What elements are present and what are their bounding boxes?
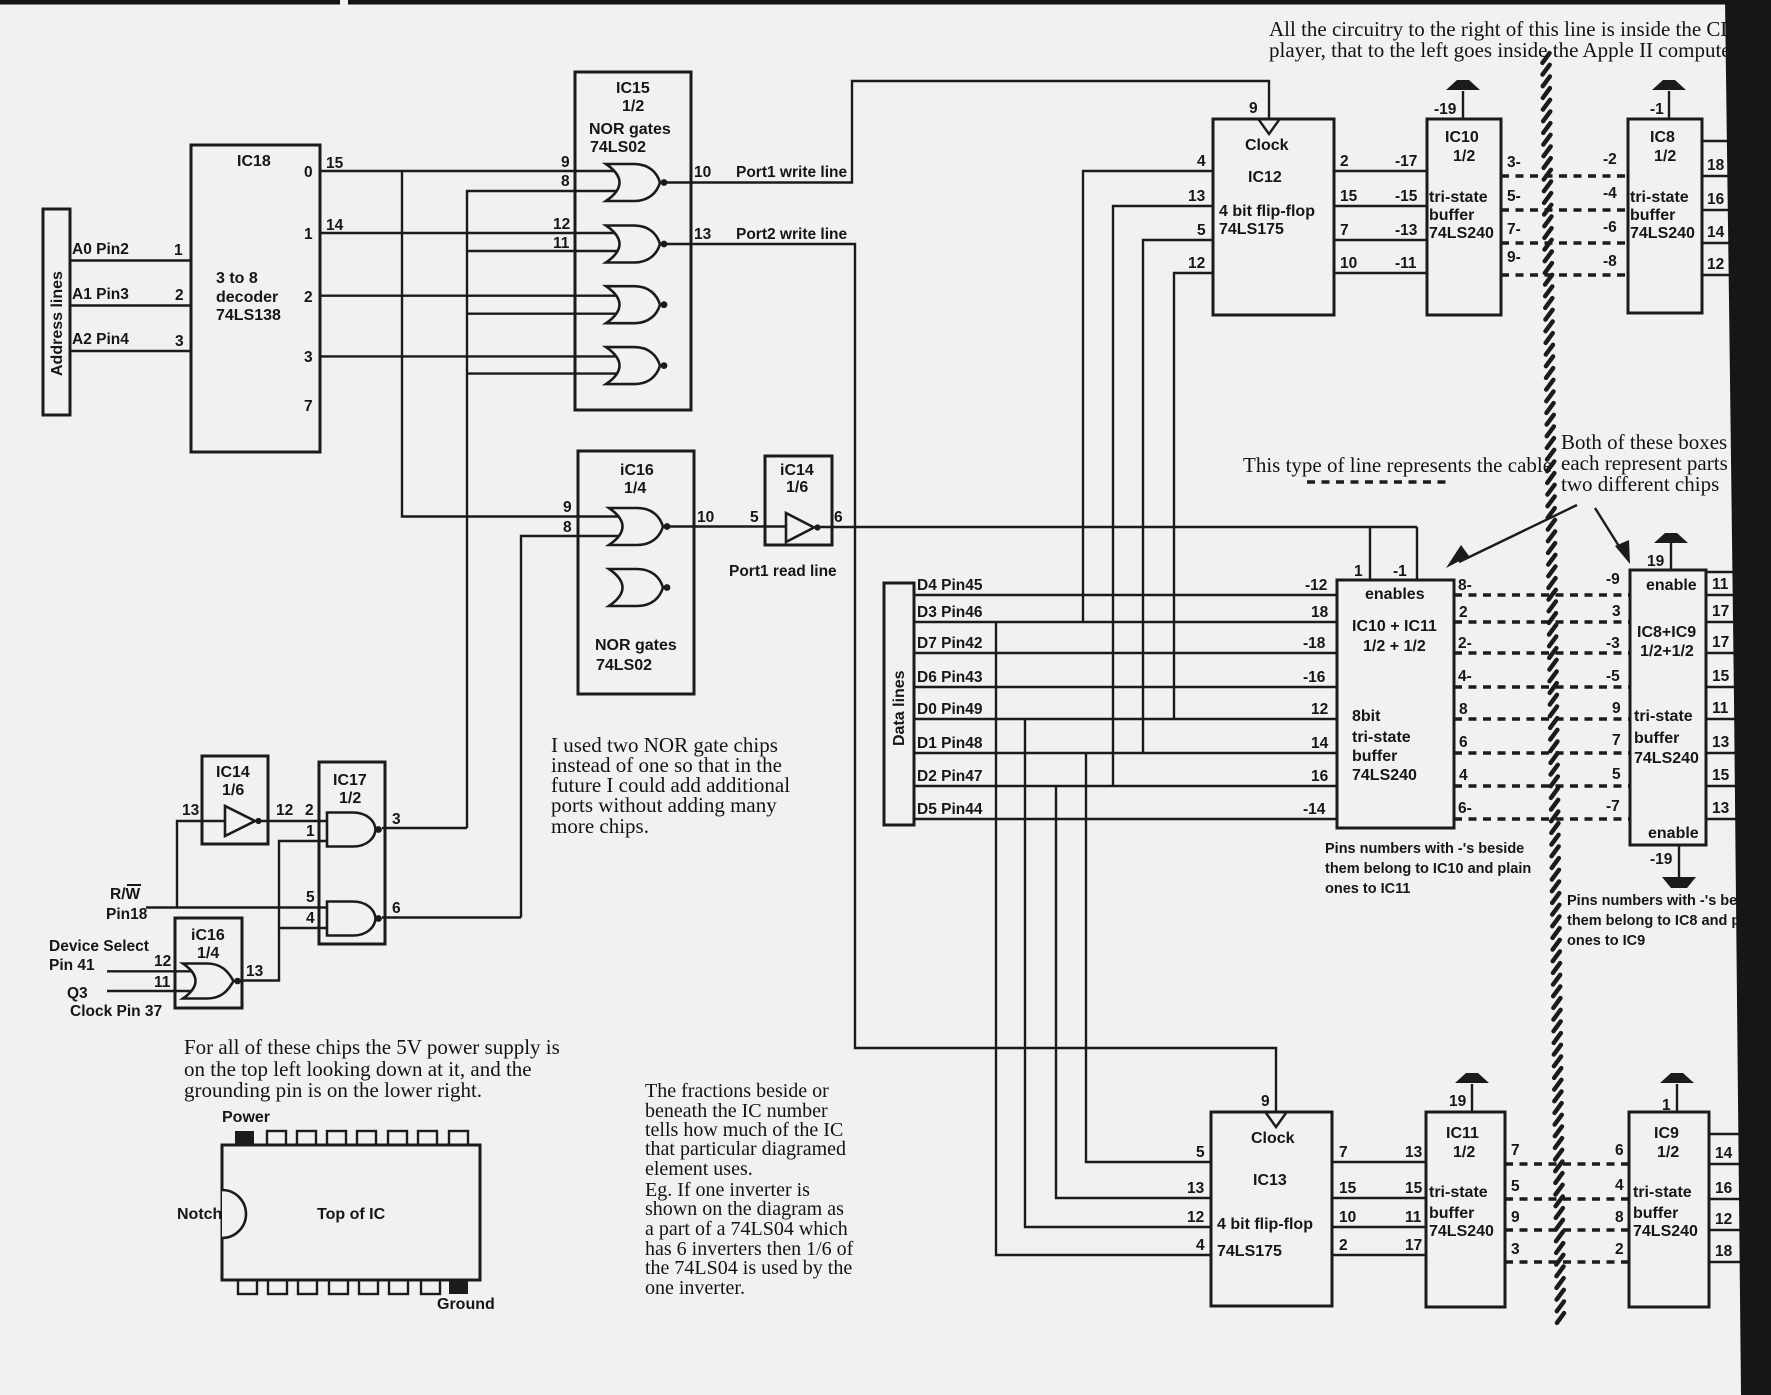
svg-text:12: 12	[276, 802, 293, 819]
svg-text:Pin 41: Pin 41	[49, 957, 95, 974]
svg-text:5: 5	[750, 509, 759, 526]
svg-text:1/2: 1/2	[1657, 1144, 1679, 1161]
svg-text:74LS02: 74LS02	[596, 657, 652, 674]
svg-text:Ground: Ground	[437, 1296, 495, 1313]
svg-text:12: 12	[1311, 701, 1328, 718]
svg-text:buffer: buffer	[1633, 1205, 1678, 1222]
buffer IC10 74LS240	[1427, 119, 1501, 315]
svg-text:1: 1	[1662, 1097, 1671, 1114]
svg-text:grounding pin is on the lower: grounding pin is on the lower right.	[184, 1078, 482, 1102]
pin 14 stub IC9	[1709, 1163, 1750, 1165]
svg-text:element uses.: element uses.	[645, 1158, 753, 1180]
wire IC12 pin10 to IC10 pin-11	[1334, 272, 1427, 274]
svg-text:IC11: IC11	[1446, 1125, 1479, 1142]
wire Device Select Pin41 input	[107, 970, 195, 972]
svg-text:5: 5	[1197, 222, 1206, 239]
svg-text:74LS175: 74LS175	[1219, 221, 1284, 238]
svg-text:Port2 write line: Port2 write line	[736, 226, 847, 243]
page top edge black strip	[0, 0, 1771, 5]
svg-text:enable: enable	[1646, 577, 1697, 594]
wire IC18 out0 to IC15 gate1 pin9	[320, 170, 622, 172]
arrow to enables box	[1459, 505, 1577, 562]
svg-text:14: 14	[1707, 224, 1725, 241]
svg-text:2: 2	[1459, 604, 1468, 621]
svg-text:IC14: IC14	[216, 764, 250, 781]
svg-text:A0 Pin2: A0 Pin2	[72, 241, 129, 258]
cable wire IC10 3- to IC8 -2	[1501, 174, 1628, 177]
svg-text:-12: -12	[1305, 577, 1327, 594]
svg-text:11: 11	[1712, 700, 1729, 717]
svg-text:74LS02: 74LS02	[590, 139, 646, 156]
svg-text:D1 Pin48: D1 Pin48	[917, 735, 983, 752]
pin top6	[388, 1131, 407, 1145]
svg-text:9: 9	[1511, 1209, 1520, 1226]
svg-text:tri-state: tri-state	[1429, 1184, 1488, 1201]
svg-text:IC18: IC18	[237, 153, 271, 170]
svg-text:17: 17	[1712, 634, 1729, 651]
svg-text:7: 7	[1511, 1142, 1520, 1159]
wire IC12 pin15 to IC10 pin-15	[1334, 205, 1427, 207]
pin 18 stub IC9	[1709, 1261, 1750, 1263]
pin 11b stub IC8+IC9	[1706, 718, 1748, 720]
pin bottom6	[389, 1280, 408, 1294]
pin 13b stub IC8+IC9	[1706, 818, 1748, 820]
wire IC18 out2 to IC15 gate3	[320, 295, 622, 297]
node Address lines bus	[43, 209, 70, 415]
svg-text:D6 Pin43: D6 Pin43	[917, 669, 983, 686]
svg-text:11: 11	[1712, 576, 1729, 593]
svg-text:74LS240: 74LS240	[1352, 767, 1417, 784]
svg-text:3: 3	[304, 349, 313, 366]
chip IC16 read-gate box	[578, 451, 694, 694]
clock arrow IC13	[1266, 1113, 1286, 1127]
pin 17b stub IC8+IC9	[1706, 652, 1748, 654]
svg-text:-6: -6	[1603, 219, 1617, 236]
wire write strobe vertical to NOR lower inputs	[467, 191, 622, 828]
svg-text:shown on the diagram as: shown on the diagram as	[645, 1198, 844, 1220]
wire IC13 pin15 to IC11 pin15	[1332, 1197, 1426, 1199]
svg-text:9: 9	[561, 154, 570, 171]
svg-text:2: 2	[175, 287, 184, 304]
wire D0 down to IC13 pin12	[1025, 719, 1211, 1227]
svg-text:Pin18: Pin18	[106, 906, 148, 923]
buffer IC8+IC9 74LS240	[1630, 570, 1706, 845]
wire junction out0 down to IC16 read gate pin9	[402, 171, 622, 517]
pin box top stub IC8+IC9	[1706, 571, 1748, 573]
svg-text:6-: 6-	[1458, 800, 1472, 817]
svg-text:7: 7	[1340, 222, 1349, 239]
wire IC13 pin10 to IC11 pin11	[1332, 1226, 1426, 1228]
svg-text:4 bit flip-flop: 4 bit flip-flop	[1219, 203, 1315, 220]
svg-text:8-: 8-	[1458, 577, 1472, 594]
svg-text:11: 11	[1405, 1209, 1422, 1226]
svg-text:15: 15	[1405, 1180, 1423, 1197]
svg-text:the 74LS04 is used by the: the 74LS04 is used by the	[645, 1257, 852, 1279]
svg-text:Pins numbers with -'s beside: Pins numbers with -'s beside	[1325, 841, 1524, 857]
wire IC12 pin5 to D1	[1143, 240, 1213, 753]
svg-text:IC17: IC17	[333, 772, 367, 789]
svg-text:-9: -9	[1606, 571, 1620, 588]
svg-text:1/2: 1/2	[622, 98, 644, 115]
buffer IC11 74LS240	[1426, 1112, 1505, 1307]
pin top4	[327, 1131, 346, 1145]
svg-text:15: 15	[1340, 188, 1358, 205]
pin ground filled bottom8	[449, 1280, 468, 1294]
svg-text:13: 13	[1712, 800, 1730, 817]
wire inverter out to NAND1 pin2	[261, 820, 327, 822]
wire IC12 pin7 to IC10 pin-13	[1334, 239, 1427, 241]
svg-text:17: 17	[1712, 603, 1729, 620]
svg-text:3: 3	[1511, 1241, 1520, 1258]
power symbol IC8	[1668, 91, 1670, 119]
chip IC17 74LS00 box	[319, 762, 385, 944]
svg-text:4 bit flip-flop: 4 bit flip-flop	[1217, 1216, 1313, 1233]
svg-text:12: 12	[154, 953, 171, 970]
svg-text:enables: enables	[1365, 586, 1425, 603]
svg-text:This type of line represents t: This type of line represents the cable	[1243, 453, 1552, 477]
wire Port1 read line to IC14 buffer	[670, 525, 786, 527]
clock arrow IC12	[1259, 120, 1279, 134]
svg-text:iC14: iC14	[780, 462, 814, 479]
cable wire IC10 5- to IC8 -4	[1501, 208, 1628, 211]
svg-text:A2 Pin4: A2 Pin4	[72, 331, 129, 348]
chip IC15 74LS02 box	[575, 72, 691, 410]
cable wire IC11 7 to IC9 6	[1505, 1162, 1629, 1165]
pin top3	[297, 1131, 316, 1145]
svg-text:buffer: buffer	[1630, 207, 1675, 224]
svg-text:them belong to IC10 and plain: them belong to IC10 and plain	[1325, 861, 1531, 877]
wire select to NAND2 pin4	[279, 927, 327, 929]
svg-text:12: 12	[553, 216, 570, 233]
svg-text:1/2: 1/2	[1453, 1144, 1475, 1161]
svg-text:19: 19	[1647, 553, 1665, 570]
svg-text:18: 18	[1707, 157, 1725, 174]
svg-text:them belong to IC8 and p: them belong to IC8 and p	[1567, 913, 1740, 929]
wire enable pin1	[1369, 527, 1371, 580]
decoder IC18 74LS138	[191, 145, 320, 452]
pin 17 stub IC8+IC9	[1706, 621, 1748, 623]
wire A2 to IC18 pin3	[70, 350, 191, 352]
svg-text:16: 16	[1311, 768, 1329, 785]
svg-text:17: 17	[1405, 1237, 1422, 1254]
svg-text:15: 15	[1712, 767, 1730, 784]
page right edge black bar	[1725, 0, 1771, 1395]
svg-text:10: 10	[697, 509, 714, 526]
svg-text:one inverter.: one inverter.	[645, 1277, 745, 1299]
wire read strobe from NAND2 up to pin8	[521, 536, 622, 918]
svg-text:2-: 2-	[1458, 635, 1472, 652]
pin 18 stub IC8	[1702, 175, 1745, 177]
svg-text:Q3: Q3	[67, 985, 88, 1002]
svg-text:Data lines: Data lines	[891, 670, 908, 746]
svg-text:D3 Pin46: D3 Pin46	[917, 604, 983, 621]
wire IC12 pin12 to D0	[1174, 273, 1213, 719]
svg-text:14: 14	[1311, 735, 1329, 752]
pin 14 stub IC8	[1702, 242, 1745, 244]
svg-text:6: 6	[392, 900, 401, 917]
svg-text:2: 2	[304, 289, 313, 306]
pin box edges IC8 right	[1702, 140, 1745, 142]
arrow to IC8+IC9 box	[1595, 508, 1622, 551]
wire D3 Pin46	[914, 621, 1337, 623]
svg-text:74LS240: 74LS240	[1630, 225, 1695, 242]
node notch semicircle	[222, 1190, 246, 1238]
svg-text:buffer: buffer	[1429, 1205, 1474, 1222]
wire IC18 out1 to IC15 gate2 pin12	[320, 232, 622, 234]
svg-text:tri-state: tri-state	[1633, 1184, 1692, 1201]
svg-text:74LS175: 74LS175	[1217, 1243, 1282, 1260]
svg-text:-13: -13	[1395, 222, 1418, 239]
svg-text:13: 13	[1188, 188, 1206, 205]
cable wire IC11 3 to IC9 2	[1505, 1260, 1629, 1263]
inverter IC14 strobe	[225, 806, 255, 836]
wire IC12 pin13 to D2	[1113, 206, 1213, 786]
svg-text:6: 6	[1459, 734, 1468, 751]
svg-text:D5 Pin44: D5 Pin44	[917, 801, 983, 818]
wire D2 down to IC13 pin13	[1056, 786, 1211, 1198]
wire cable hatch line	[1542, 53, 1564, 1323]
nor-gate IC15a	[606, 164, 660, 201]
cable wire IC11 5 to IC9 4	[1505, 1197, 1629, 1200]
svg-text:4: 4	[1197, 153, 1206, 170]
wire IC18 out3 to IC15 gate4	[320, 355, 622, 357]
svg-text:3: 3	[1612, 603, 1621, 620]
svg-text:18: 18	[1715, 1243, 1733, 1260]
nand-gate IC17b	[327, 902, 376, 936]
svg-text:3 to 8: 3 to 8	[216, 270, 258, 287]
nand-gate IC17a	[327, 813, 376, 847]
svg-text:8: 8	[1615, 1209, 1624, 1226]
svg-text:0: 0	[304, 164, 313, 181]
svg-text:IC10: IC10	[1445, 129, 1479, 146]
wire NAND1 out up as write strobe	[382, 827, 467, 829]
pin 15b stub IC8+IC9	[1706, 785, 1748, 787]
power symbol IC11	[1471, 1084, 1473, 1112]
svg-text:-3: -3	[1606, 635, 1620, 652]
svg-text:Port1 read line: Port1 read line	[729, 563, 837, 580]
svg-text:15: 15	[1712, 668, 1730, 685]
svg-text:1/2 + 1/2: 1/2 + 1/2	[1363, 638, 1426, 655]
svg-text:IC8: IC8	[1650, 129, 1675, 146]
svg-text:9: 9	[563, 499, 572, 516]
pin 11 stub IC8+IC9	[1706, 594, 1748, 596]
svg-text:7: 7	[304, 398, 313, 415]
svg-text:8bit: 8bit	[1352, 708, 1381, 725]
svg-text:1: 1	[1354, 563, 1363, 580]
svg-text:D2 Pin47: D2 Pin47	[917, 768, 982, 785]
pin power filled top pin1	[235, 1131, 254, 1145]
svg-text:-11: -11	[1395, 255, 1417, 272]
svg-text:Address lines: Address lines	[49, 271, 66, 376]
svg-text:2: 2	[1339, 1237, 1348, 1254]
svg-text:2: 2	[1340, 153, 1349, 170]
svg-text:13: 13	[1405, 1144, 1423, 1161]
svg-text:tri-state: tri-state	[1634, 708, 1693, 725]
wire strobe to gate2 pin11	[467, 250, 622, 252]
wire A0 to IC18 pin1	[70, 259, 191, 261]
svg-text:Port1 write line: Port1 write line	[736, 164, 847, 181]
wire Port1 read line to enables	[820, 526, 1417, 528]
svg-text:-8: -8	[1603, 253, 1617, 270]
svg-text:5: 5	[1196, 1144, 1205, 1161]
pin 16 stub IC8	[1702, 209, 1745, 211]
svg-text:15: 15	[326, 155, 344, 172]
ground symbol IC8+IC9	[1678, 845, 1680, 877]
inverter IC14 read	[786, 513, 814, 542]
pin 15 stub IC8+IC9	[1706, 686, 1748, 688]
svg-text:-1: -1	[1650, 101, 1664, 118]
svg-text:buffer: buffer	[1634, 730, 1679, 747]
wire strobe to gate3 lower input	[467, 313, 622, 315]
svg-text:10: 10	[1339, 1209, 1356, 1226]
wire enable pin-1	[1416, 527, 1418, 580]
svg-text:4-: 4-	[1458, 668, 1472, 685]
pin 12 stub IC9	[1709, 1229, 1750, 1231]
svg-text:IC13: IC13	[1253, 1172, 1287, 1189]
svg-text:1/4: 1/4	[197, 945, 219, 962]
chip IC14 strobe inverter box	[202, 756, 268, 844]
svg-text:13: 13	[1712, 734, 1730, 751]
svg-text:1/4: 1/4	[624, 480, 646, 497]
svg-text:74LS240: 74LS240	[1429, 225, 1494, 242]
svg-text:1: 1	[306, 823, 315, 840]
power symbol IC10	[1462, 91, 1464, 119]
wire IC12 pin4 to D3	[1083, 171, 1213, 622]
svg-text:8: 8	[563, 519, 572, 536]
wire IC13 pin7 to IC11 pin13	[1332, 1161, 1426, 1163]
svg-text:more chips.: more chips.	[551, 814, 649, 838]
svg-text:11: 11	[154, 974, 171, 991]
wire NAND2 out read strobe	[382, 916, 521, 918]
svg-text:Notch: Notch	[177, 1206, 222, 1223]
svg-text:buffer: buffer	[1352, 748, 1397, 765]
wire A1 to IC18 pin2	[70, 304, 191, 306]
svg-text:4: 4	[306, 910, 315, 927]
svg-text:6: 6	[834, 509, 843, 526]
cable wire buffer 4 to IC8+IC9 5	[1454, 784, 1631, 787]
pin bottom7	[421, 1280, 440, 1294]
svg-text:12: 12	[1715, 1211, 1732, 1228]
svg-text:1: 1	[174, 242, 183, 259]
pin bottom3	[298, 1280, 317, 1294]
svg-text:12: 12	[1707, 256, 1724, 273]
chip IC16 select-gate box	[175, 918, 242, 1008]
pin top5	[357, 1131, 376, 1145]
svg-text:74LS240: 74LS240	[1429, 1223, 1494, 1240]
cable wire IC11 9 to IC9 8	[1505, 1228, 1629, 1231]
buffer IC10+IC11 8bit 74LS240	[1337, 580, 1454, 828]
pin 12 stub IC8	[1702, 274, 1745, 276]
svg-text:-19: -19	[1650, 851, 1673, 868]
svg-text:tri-state: tri-state	[1352, 729, 1411, 746]
svg-text:IC12: IC12	[1248, 169, 1282, 186]
wire D7 Pin42	[914, 652, 1337, 654]
svg-text:74LS240: 74LS240	[1633, 1223, 1698, 1240]
svg-text:3-: 3-	[1507, 154, 1521, 171]
buffer IC9 74LS240	[1629, 1112, 1709, 1307]
svg-text:5: 5	[306, 889, 315, 906]
svg-text:-2: -2	[1603, 151, 1617, 168]
svg-text:D7 Pin42: D7 Pin42	[917, 635, 982, 652]
pin bottom1	[238, 1280, 257, 1294]
wire Q3 Clock Pin37 input	[107, 990, 195, 992]
svg-text:7: 7	[1339, 1144, 1348, 1161]
svg-text:1/2: 1/2	[1453, 148, 1475, 165]
cable wire buffer 4- to IC8+IC9 -5	[1454, 685, 1631, 688]
svg-text:1/2: 1/2	[339, 790, 361, 807]
svg-text:IC15: IC15	[616, 80, 650, 97]
node Data lines bus	[884, 583, 914, 825]
svg-text:14: 14	[1715, 1145, 1733, 1162]
power symbol IC9	[1676, 1084, 1678, 1112]
svg-text:7-: 7-	[1507, 221, 1521, 238]
svg-text:14: 14	[326, 217, 344, 234]
svg-text:5: 5	[1612, 766, 1621, 783]
svg-text:19: 19	[1449, 1093, 1467, 1110]
svg-text:NOR gates: NOR gates	[589, 121, 671, 138]
wire D4 Pin45	[914, 594, 1337, 596]
pin 16 stub IC9	[1709, 1198, 1750, 1200]
wire RW pin18 line	[146, 906, 327, 908]
svg-text:Clock Pin 37: Clock Pin 37	[70, 1003, 162, 1020]
svg-text:9: 9	[1249, 100, 1258, 117]
svg-text:-4: -4	[1603, 185, 1617, 202]
svg-text:3: 3	[175, 333, 184, 350]
cable wire IC10 7- to IC8 -6	[1501, 241, 1628, 244]
wire D5 Pin44	[914, 818, 1337, 820]
wire D1 down to IC13 pin5	[1086, 753, 1211, 1162]
nor-gate IC16b unused	[609, 569, 663, 606]
pin bottom5	[359, 1280, 378, 1294]
svg-text:IC10 + IC11: IC10 + IC11	[1352, 618, 1437, 635]
svg-text:9-: 9-	[1507, 249, 1521, 266]
svg-text:ones to IC11: ones to IC11	[1325, 881, 1410, 897]
svg-text:A1 Pin3: A1 Pin3	[72, 286, 129, 303]
svg-text:For all of these chips the 5V: For all of these chips the 5V power supp…	[184, 1035, 560, 1059]
svg-text:1/6: 1/6	[786, 479, 808, 496]
svg-text:5: 5	[1511, 1178, 1520, 1195]
pin top2	[267, 1131, 286, 1145]
wire IC13 pin2 to IC11 pin17	[1332, 1254, 1426, 1256]
wire IC12 pin2 to IC10 pin-17	[1334, 170, 1427, 172]
svg-text:enable: enable	[1648, 825, 1699, 842]
svg-text:IC8+IC9: IC8+IC9	[1637, 624, 1696, 641]
svg-text:-17: -17	[1395, 153, 1417, 170]
svg-text:decoder: decoder	[216, 289, 278, 306]
svg-text:74LS240: 74LS240	[1634, 750, 1699, 767]
pin top7	[418, 1131, 437, 1145]
svg-text:2: 2	[1615, 1241, 1624, 1258]
svg-text:4: 4	[1615, 1177, 1624, 1194]
wire D2 Pin47	[914, 785, 1337, 787]
pin bottom4	[329, 1280, 348, 1294]
svg-text:1: 1	[304, 226, 313, 243]
svg-text:12: 12	[1188, 255, 1205, 272]
svg-text:The fractions beside or: The fractions beside or	[645, 1080, 829, 1102]
svg-text:13: 13	[182, 802, 200, 819]
svg-text:2: 2	[305, 802, 314, 819]
pin bottom2	[268, 1280, 287, 1294]
svg-text:7: 7	[1612, 732, 1621, 749]
svg-text:a part of a 74LS04 which: a part of a 74LS04 which	[645, 1218, 848, 1240]
svg-text:tri-state: tri-state	[1630, 189, 1689, 206]
wire Port2 write line	[667, 244, 1276, 1113]
svg-text:18: 18	[1311, 604, 1329, 621]
svg-text:3: 3	[392, 811, 401, 828]
svg-text:16: 16	[1715, 1180, 1733, 1197]
svg-text:Top of IC: Top of IC	[317, 1206, 386, 1223]
svg-text:iC16: iC16	[191, 927, 225, 944]
